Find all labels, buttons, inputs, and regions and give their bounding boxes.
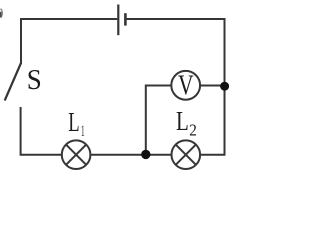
svg-text:L: L (68, 107, 79, 137)
svg-text:2: 2 (189, 121, 197, 140)
svg-text:V: V (178, 70, 194, 101)
svg-text:L: L (176, 106, 189, 136)
svg-text:S: S (27, 64, 42, 96)
svg-text:1: 1 (81, 123, 85, 140)
